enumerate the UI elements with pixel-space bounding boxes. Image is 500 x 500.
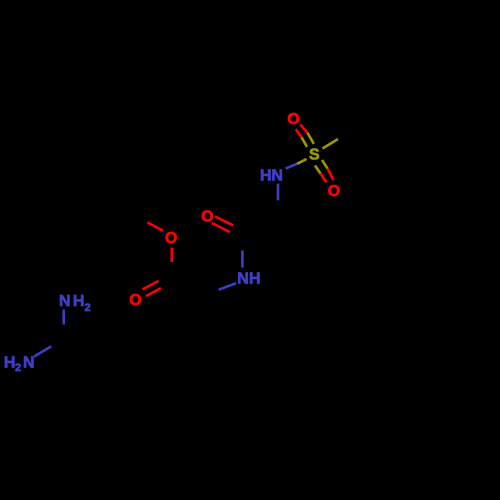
bond S=O bottom line1 (O half, red) xyxy=(328,169,334,181)
svg-text:O: O xyxy=(328,183,340,200)
bond amide C=O line2 (O half, red) xyxy=(212,223,230,232)
svg-text:H: H xyxy=(4,354,16,371)
bond ester C=O line1 (O half, red) xyxy=(142,281,158,289)
bond S=O top line1 (S half, olive) xyxy=(302,137,307,147)
svg-text:O: O xyxy=(129,292,141,309)
svg-text:H: H xyxy=(73,293,85,310)
svg-text:O: O xyxy=(165,230,177,247)
bond CH3-O ester (O half, red) xyxy=(147,222,163,230)
svg-text:N: N xyxy=(271,168,283,185)
bond O-C ester (O half, red) xyxy=(171,248,174,262)
svg-text:S: S xyxy=(309,146,320,163)
bond S=O bottom line1 (S half, olive) xyxy=(322,160,328,169)
bond amide C-N (N half, blue) xyxy=(241,251,244,268)
bond S=O top line2 (S half, olive) xyxy=(308,133,314,144)
svg-text:O: O xyxy=(287,111,299,128)
svg-text:2: 2 xyxy=(15,362,21,374)
svg-text:N: N xyxy=(237,271,249,288)
bond ester C=O line2 (O half, red) xyxy=(146,288,161,296)
bond S=O bottom line2 (S half, olive) xyxy=(315,166,321,174)
bond amide C=O line1 (O half, red) xyxy=(215,216,234,225)
bond S-CH3 (S half, olive) xyxy=(323,139,339,149)
bond S=O top line1 (O half, red) xyxy=(296,129,302,137)
svg-text:2: 2 xyxy=(85,302,91,314)
bond S-N (S half, olive) xyxy=(297,159,307,164)
bond S=O bottom line2 (O half, red) xyxy=(321,174,327,183)
svg-text:H: H xyxy=(260,168,272,185)
bond amidine C-NH2 vertical (N half, blue) xyxy=(62,310,65,325)
bond S=O top line2 (O half, red) xyxy=(300,124,307,132)
svg-text:H: H xyxy=(249,271,261,288)
bond HN-CH2 (N half, blue) xyxy=(277,184,280,201)
bond S-N (N half, blue) xyxy=(286,164,297,169)
svg-text:N: N xyxy=(23,354,35,371)
svg-text:O: O xyxy=(201,209,213,226)
bond amidine C-NH2 diagonal (N half, blue) xyxy=(34,346,51,356)
bond N-Calpha (N half, blue) xyxy=(219,283,237,290)
svg-text:N: N xyxy=(59,293,71,310)
